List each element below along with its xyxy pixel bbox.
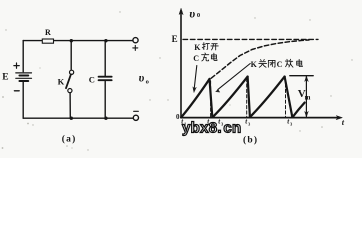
wire capacitor branch upper (104, 41, 106, 76)
wire left vertical lower (22, 81, 24, 118)
leader arrow from charging label (194, 66, 197, 89)
dashed vertical at t1 peak (210, 81, 212, 117)
terminal + sign (133, 45, 138, 50)
Vm dimension line (305, 76, 307, 116)
svg-text:C: C (277, 60, 283, 69)
switch K contact upper (70, 70, 74, 74)
hanzi dian (electricity) (297, 59, 303, 66)
svg-text:E: E (172, 34, 178, 44)
Vm top reference bar (290, 75, 313, 77)
svg-text:υ: υ (189, 7, 195, 21)
hanzi kai (open) (211, 44, 218, 50)
x axis arrowhead (336, 116, 342, 120)
node junction bottom capacitor (104, 117, 107, 120)
svg-text:C: C (193, 54, 199, 63)
svg-text:(a): (a) (62, 133, 77, 144)
output terminal top (133, 38, 138, 43)
paper speckle noise (2, 11, 353, 150)
sawtooth tooth 1 discharge (210, 79, 213, 117)
x axis (181, 117, 340, 119)
switch K blade (66, 74, 71, 88)
output terminal bottom (133, 115, 138, 120)
resistor R1 box (42, 39, 53, 43)
wire bottom horizontal (23, 117, 133, 119)
sawtooth tooth 2 discharge (248, 77, 250, 117)
dashed line at E level (183, 38, 318, 40)
node junction top switch (70, 39, 73, 42)
battery E plates (16, 73, 32, 81)
battery - sign (14, 90, 19, 92)
hanzi fang (release) (285, 59, 293, 67)
sawtooth tooth 3 discharge (285, 77, 293, 117)
svg-text:K: K (194, 43, 201, 52)
Vm arrow down (305, 111, 309, 116)
node junction top capacitor (104, 39, 107, 42)
svg-text:K: K (251, 60, 258, 69)
wire switch branch lower (69, 93, 71, 119)
hanzi dian (electricity) (211, 53, 217, 60)
node junction bottom switch (70, 117, 73, 120)
sawtooth tooth 3 rise (250, 77, 285, 118)
svg-text:K: K (58, 77, 65, 87)
wire left vertical upper (22, 41, 24, 72)
capacitor C plate top (99, 76, 112, 78)
svg-text:0: 0 (197, 12, 200, 19)
dashed charging envelope curve (211, 40, 309, 78)
y axis (180, 12, 182, 118)
svg-text:R: R (45, 28, 51, 37)
sawtooth tooth 4 partial rise (293, 103, 305, 117)
capacitor C plate bottom (99, 79, 112, 81)
svg-text:o: o (146, 78, 149, 85)
sawtooth tooth 1 rise (181, 79, 209, 117)
svg-text:t: t (342, 117, 345, 127)
svg-text:E: E (2, 72, 8, 82)
Vm arrow up (305, 76, 309, 81)
dashed vertical at t2 peak (246, 79, 248, 117)
hanzi da (hit) (202, 43, 209, 50)
battery + sign (14, 63, 19, 68)
hanzi bi (shut) (268, 60, 275, 67)
svg-text:0: 0 (176, 113, 180, 121)
svg-text:3: 3 (290, 122, 293, 127)
switch K contact lower (68, 89, 72, 93)
wire top horizontal (23, 40, 133, 42)
terminal - sign (134, 110, 139, 112)
wire capacitor branch lower (104, 81, 106, 118)
dashed vertical at t3 peak (285, 79, 287, 117)
svg-text:3: 3 (248, 122, 251, 127)
sawtooth tooth 2 rise (213, 77, 248, 118)
y axis arrowhead (179, 8, 183, 14)
svg-text:υ: υ (139, 73, 145, 85)
svg-text:ybx8. cn: ybx8. cn (182, 120, 242, 137)
wire switch branch upper (70, 41, 72, 70)
svg-text:(b): (b) (243, 135, 258, 146)
hanzi guan (close) (259, 60, 267, 68)
svg-text:m: m (305, 94, 311, 102)
hanzi chong (charge) (202, 53, 209, 61)
svg-text:C: C (89, 74, 95, 84)
leader arrow from discharge label (218, 64, 250, 90)
